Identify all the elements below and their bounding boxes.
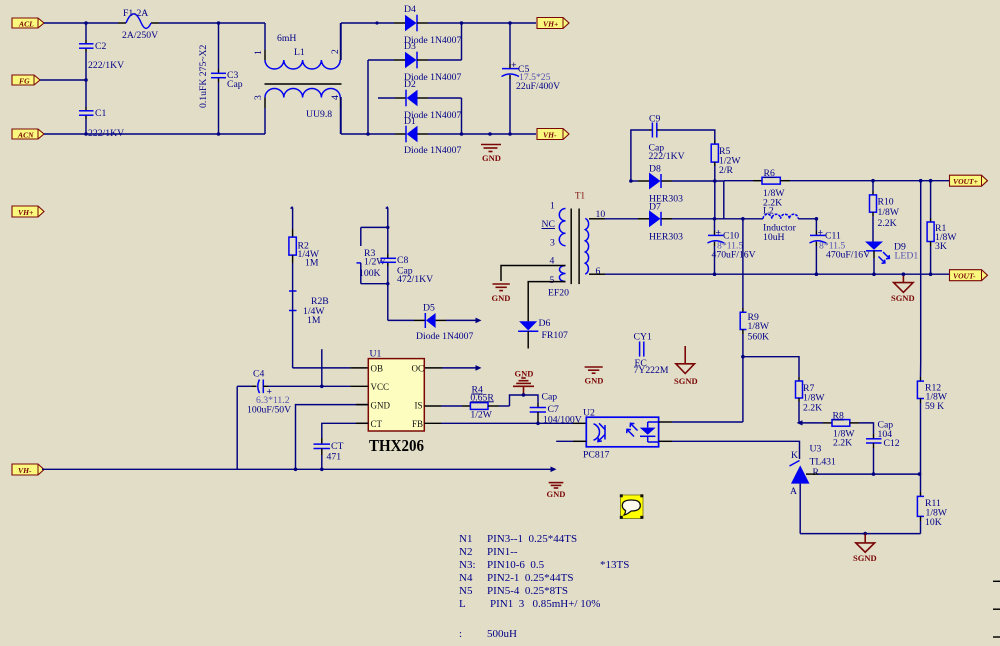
svg-text:22uF/400V: 22uF/400V (516, 81, 560, 92)
resistor R7 (796, 377, 826, 423)
svg-text:D1: D1 (404, 116, 416, 127)
svg-text:D7: D7 (649, 202, 661, 213)
svg-text:D3: D3 (404, 41, 416, 52)
svg-text:U2: U2 (583, 408, 595, 419)
wire C4 left column down to VH- rail (236, 386, 238, 469)
wire D5 row right with arrow end (446, 318, 482, 324)
svg-text:PIN5-4 0.25*8TS: PIN5-4 0.25*8TS (487, 585, 568, 597)
fuse F1 (122, 8, 158, 41)
svg-text:VCC: VCC (371, 382, 390, 392)
svg-text:100K: 100K (359, 268, 381, 279)
wire R2B down to OB row (292, 311, 294, 368)
svg-text:2.2K: 2.2K (833, 438, 852, 449)
resistor R10 (870, 181, 900, 242)
junction dots output section (629, 179, 633, 183)
T1 primary winding pins 1-3 (559, 209, 565, 246)
svg-text:GND: GND (515, 369, 534, 379)
wire FB row (424, 422, 441, 424)
wire R3 loop top (361, 226, 388, 228)
svg-text:D4: D4 (404, 4, 416, 15)
svg-text:470uF/16V: 470uF/16V (712, 250, 756, 261)
svg-text:FB: FB (412, 419, 423, 429)
wire node B vertical (D3 row to row4) (367, 60, 369, 134)
diode D9 LED1 (865, 242, 918, 275)
svg-text:2/R: 2/R (719, 165, 734, 176)
svg-text:EF20: EF20 (548, 288, 569, 299)
port VOUT- (950, 270, 988, 281)
svg-text::: : (459, 628, 462, 640)
wire R9 column to opto row (742, 357, 744, 422)
T1 primary winding pins 4-5 (559, 266, 565, 282)
U2 phototransistor (594, 424, 600, 440)
wire R3 column through C8 (387, 227, 389, 254)
svg-text:N5: N5 (459, 585, 473, 597)
wire D8 row (631, 180, 638, 182)
ground GND floating mid (585, 367, 604, 386)
svg-text:L2: L2 (763, 206, 774, 217)
svg-text:SGND: SGND (891, 293, 915, 303)
port VH+ left (12, 206, 44, 217)
wire U2 right bottom pin to TL431 K (659, 440, 672, 442)
svg-text:Cap: Cap (542, 392, 558, 403)
wire OB row (293, 367, 351, 369)
svg-text:CT: CT (331, 441, 343, 452)
svg-text:ACN: ACN (17, 131, 34, 140)
ground GND under bridge (481, 145, 501, 164)
svg-text:N4: N4 (459, 572, 473, 584)
wire U2 left pins (573, 440, 586, 442)
svg-text:A: A (790, 486, 797, 497)
svg-text:100uF/50V: 100uF/50V (247, 405, 291, 416)
svg-text:1: 1 (550, 201, 555, 212)
IC U1 THX206 (368, 349, 424, 455)
wire R4 up to GND node and C7 (510, 395, 539, 406)
capacitor C10 (708, 219, 756, 274)
wire OC row with arrow end (424, 365, 481, 371)
wire right column VOUT+ to R12 (920, 181, 922, 362)
svg-text:+: + (818, 228, 824, 239)
port FG (12, 75, 40, 86)
resistor R4 (462, 385, 510, 421)
svg-text:2.2K: 2.2K (803, 403, 822, 414)
svg-text:GND: GND (492, 293, 511, 303)
wire R3 loop bottom (361, 283, 388, 285)
resistor R5 (711, 140, 741, 219)
wire D3 row (368, 59, 394, 61)
svg-text:CT: CT (371, 419, 383, 429)
svg-text:PC817: PC817 (583, 450, 610, 461)
svg-text:R10: R10 (878, 197, 894, 208)
T1 secondary winding pins 10-6 (585, 218, 588, 274)
capacitor C12 (866, 420, 900, 475)
notes text block (459, 533, 629, 640)
resistor R11 (917, 474, 947, 533)
svg-text:2.2K: 2.2K (878, 218, 897, 229)
capacitor C5 (502, 23, 561, 134)
svg-text:IS: IS (415, 400, 423, 410)
wire bridge row4 (341, 133, 395, 135)
wire R12 column (920, 362, 922, 377)
wire IS row (424, 405, 441, 407)
wire D8 row to D7 row vertical (723, 181, 725, 219)
svg-text:N1: N1 (459, 533, 472, 545)
svg-text:C1: C1 (95, 108, 106, 119)
resistor R1 (927, 181, 957, 275)
capacitor C4 (237, 369, 350, 416)
svg-text:471: 471 (327, 452, 342, 463)
svg-text:THX206: THX206 (369, 436, 424, 455)
inductor L2 (763, 206, 816, 244)
U2 LED (640, 428, 656, 435)
svg-text:GND: GND (585, 376, 604, 386)
wire C3 column (218, 23, 220, 69)
wire T1 pin4 to GND (501, 266, 566, 282)
svg-text:1/8W: 1/8W (748, 321, 770, 332)
svg-text:PIN10-6 0.5: PIN10-6 0.5 (487, 559, 545, 571)
svg-text:500uH: 500uH (487, 628, 517, 640)
svg-text:59 K: 59 K (925, 401, 944, 412)
svg-text:10K: 10K (925, 517, 942, 528)
svg-text:222/1KV: 222/1KV (649, 151, 685, 162)
svg-text:0.65R: 0.65R (470, 392, 494, 403)
capacitor C8 (380, 255, 433, 285)
signal ground SGND at VOUT- row (891, 274, 915, 303)
wire R9 node to R7 (743, 357, 799, 377)
svg-text:C8: C8 (397, 255, 408, 266)
svg-text:VOUT+: VOUT+ (953, 177, 978, 186)
wire R2 column top with end tick (291, 207, 293, 229)
ground GND at T1 pin4 (492, 284, 511, 303)
port ACL (12, 18, 44, 29)
signal ground SGND bottom (853, 534, 877, 563)
wire T1 pin5 down to D6 (528, 282, 565, 312)
svg-text:N3:: N3: (459, 559, 476, 571)
port VH- bottom left (12, 464, 44, 475)
diode D8 HER303 (638, 164, 683, 205)
resistor R9 (740, 308, 770, 357)
svg-text:1M: 1M (307, 315, 321, 326)
svg-text:C9: C9 (649, 114, 660, 125)
resistor R12 (917, 377, 947, 474)
svg-text:C12: C12 (884, 438, 900, 449)
svg-text:7Y222M: 7Y222M (634, 365, 669, 376)
wire fuse to C3 node and L1 (151, 22, 159, 24)
wire R3 column top with end tick (386, 207, 388, 228)
svg-text:T1: T1 (575, 191, 585, 201)
svg-text:*13TS: *13TS (600, 559, 629, 571)
wire bridge row1 (341, 22, 394, 24)
svg-text:HER303: HER303 (649, 232, 683, 243)
regulator U3 TL431 (790, 444, 837, 534)
diode D4 (394, 4, 461, 46)
svg-text:2A/250V: 2A/250V (122, 30, 158, 41)
svg-text:SGND: SGND (674, 376, 698, 386)
svg-text:PIN1--: PIN1-- (487, 546, 518, 558)
svg-text:GND: GND (371, 400, 391, 410)
svg-text:+: + (511, 60, 517, 71)
wire R8 to C12 (859, 423, 874, 434)
port VOUT+ (950, 175, 988, 186)
svg-text:Cap: Cap (227, 79, 243, 90)
inductor L1 common mode choke (253, 23, 342, 134)
svg-text:+: + (716, 228, 722, 239)
capacitor C3 (198, 44, 243, 108)
wire bottom output row (589, 273, 605, 275)
wire FG to column (40, 79, 86, 81)
svg-text:VH+: VH+ (18, 208, 33, 217)
wire R2 to R2B (292, 263, 294, 291)
wire R9 column (crosses output row) (742, 219, 744, 308)
svg-text:D2: D2 (404, 79, 416, 90)
svg-text:VH+: VH+ (543, 20, 558, 29)
resistor R3 (357, 227, 387, 283)
wire D7 row / pin10 row (589, 218, 605, 220)
wire ACL to C2 node (44, 22, 118, 24)
wire GND pin column (296, 405, 369, 470)
ground GND inverted at R4/C7 (513, 369, 534, 395)
transformer T1 (542, 191, 606, 299)
junction dots top section (84, 21, 88, 25)
svg-text:C4: C4 (253, 369, 264, 380)
svg-text:6mH: 6mH (277, 33, 296, 44)
svg-text:OC: OC (412, 364, 425, 374)
svg-text:SGND: SGND (853, 553, 877, 563)
wire D2 anode to row4 (428, 97, 462, 99)
wire U2 right top pin to R9 column (659, 421, 672, 423)
svg-text:3: 3 (550, 238, 555, 249)
svg-text:GND: GND (482, 153, 501, 163)
svg-text:470uF/16V: 470uF/16V (826, 250, 870, 261)
svg-text:1/2W: 1/2W (470, 410, 492, 421)
svg-text:222/1KV: 222/1KV (88, 60, 124, 71)
resistor R8 (823, 411, 859, 449)
svg-text:F1-2A: F1-2A (123, 8, 148, 19)
svg-text:0.1uFK 275~X2: 0.1uFK 275~X2 (198, 44, 209, 108)
wire R6 row to VOUT+ (790, 180, 949, 182)
svg-text:GND: GND (547, 489, 566, 499)
capacitor C2 (79, 41, 124, 71)
wire SGND row (800, 533, 920, 535)
svg-text:D5: D5 (423, 303, 435, 314)
svg-text:10uH: 10uH (763, 232, 785, 243)
svg-text:LED1: LED1 (895, 251, 919, 262)
svg-text:472/1KV: 472/1KV (397, 274, 433, 285)
svg-text:6: 6 (596, 266, 601, 277)
svg-text:CY1: CY1 (634, 332, 652, 343)
T1 core (570, 209, 572, 285)
svg-text:1/8W: 1/8W (878, 207, 900, 218)
wire D3 cathode up to row1 (461, 23, 463, 60)
port ACN (12, 129, 44, 140)
ground GND below rail end (547, 483, 566, 499)
diode D3 (394, 41, 461, 83)
diode D5 (414, 303, 473, 343)
svg-text:5: 5 (550, 275, 555, 286)
svg-text:560K: 560K (748, 332, 770, 343)
border ruler ticks (993, 581, 1000, 637)
svg-text:3K: 3K (935, 241, 947, 252)
wire ACN row (44, 133, 265, 135)
port VH+ top (537, 18, 569, 29)
wire TL431 R row (806, 473, 818, 475)
svg-text:ACL: ACL (18, 20, 34, 29)
resistor R2B (289, 291, 329, 326)
wire VH- rail (42, 467, 557, 473)
node R3 loop junctions (386, 226, 389, 229)
wire bridge node A vertical top (340, 23, 342, 60)
svg-text:1: 1 (253, 50, 264, 55)
svg-text:L: L (459, 598, 466, 610)
capacitor CT 471 (314, 438, 344, 469)
svg-text:TL431: TL431 (810, 457, 837, 468)
svg-text:U1: U1 (370, 349, 382, 360)
diode D1 (395, 116, 461, 156)
svg-text:PIN3--1 0.25*44TS: PIN3--1 0.25*44TS (487, 533, 577, 545)
svg-text:VH-: VH- (18, 466, 32, 475)
diode D6 FR107 (518, 312, 568, 349)
svg-text:UU9.8: UU9.8 (306, 109, 332, 120)
diode D7 HER303 (638, 202, 683, 243)
svg-text:U3: U3 (810, 444, 822, 455)
svg-text:222/1KV: 222/1KV (88, 128, 124, 139)
svg-text:FG: FG (19, 77, 30, 86)
svg-text:Diode 1N4007: Diode 1N4007 (404, 145, 461, 156)
svg-text:VOUT-: VOUT- (953, 272, 976, 281)
wire C2/C1 column (85, 23, 87, 40)
svg-text:C7: C7 (548, 404, 559, 415)
port VH- top (537, 129, 569, 140)
svg-text:1M: 1M (305, 258, 319, 269)
capacitor C7 (530, 392, 582, 426)
svg-text:PIN1 3 0.85mH+/ 10%: PIN1 3 0.85mH+/ 10% (490, 598, 600, 610)
wire D5 row left (388, 319, 414, 321)
svg-text:PIN2-1 0.25*44TS: PIN2-1 0.25*44TS (487, 572, 573, 584)
capacitor C1 (79, 108, 124, 139)
svg-text:OB: OB (371, 364, 384, 374)
optocoupler U2 PC817 (583, 408, 659, 461)
wire bridge node vertical bottom (340, 97, 342, 134)
resistor R6 (724, 168, 790, 209)
capacitor C11 (810, 219, 871, 274)
wire C9 row (631, 130, 649, 181)
signal ground SGND mid (674, 346, 698, 386)
svg-text:2: 2 (330, 49, 341, 54)
wire R8 row with left arrow (797, 420, 824, 425)
svg-text:VH-: VH- (543, 131, 557, 140)
svg-text:K: K (791, 450, 798, 461)
svg-text:N2: N2 (459, 546, 472, 558)
wire CT pin row and column (322, 423, 369, 438)
svg-text:D6: D6 (539, 318, 551, 329)
wire D2 row stub (378, 97, 395, 99)
svg-text:3: 3 (253, 95, 264, 100)
capacitor CY1 (634, 332, 669, 377)
capacitor C9 (649, 114, 685, 163)
svg-text:L1: L1 (294, 47, 305, 58)
svg-text:FR107: FR107 (542, 330, 569, 341)
svg-text:Diode 1N4007: Diode 1N4007 (416, 331, 473, 342)
wire VCC stub column (321, 349, 323, 386)
svg-text:R: R (813, 467, 820, 478)
note icon (620, 494, 644, 519)
diode D2 (395, 79, 461, 121)
svg-text:NC: NC (542, 219, 555, 230)
svg-text:D8: D8 (649, 164, 661, 175)
svg-text:4: 4 (330, 95, 341, 100)
svg-text:R6: R6 (764, 168, 775, 179)
svg-text:R8: R8 (833, 411, 844, 422)
resistor R2 (289, 229, 320, 269)
svg-text:C2: C2 (95, 41, 106, 52)
